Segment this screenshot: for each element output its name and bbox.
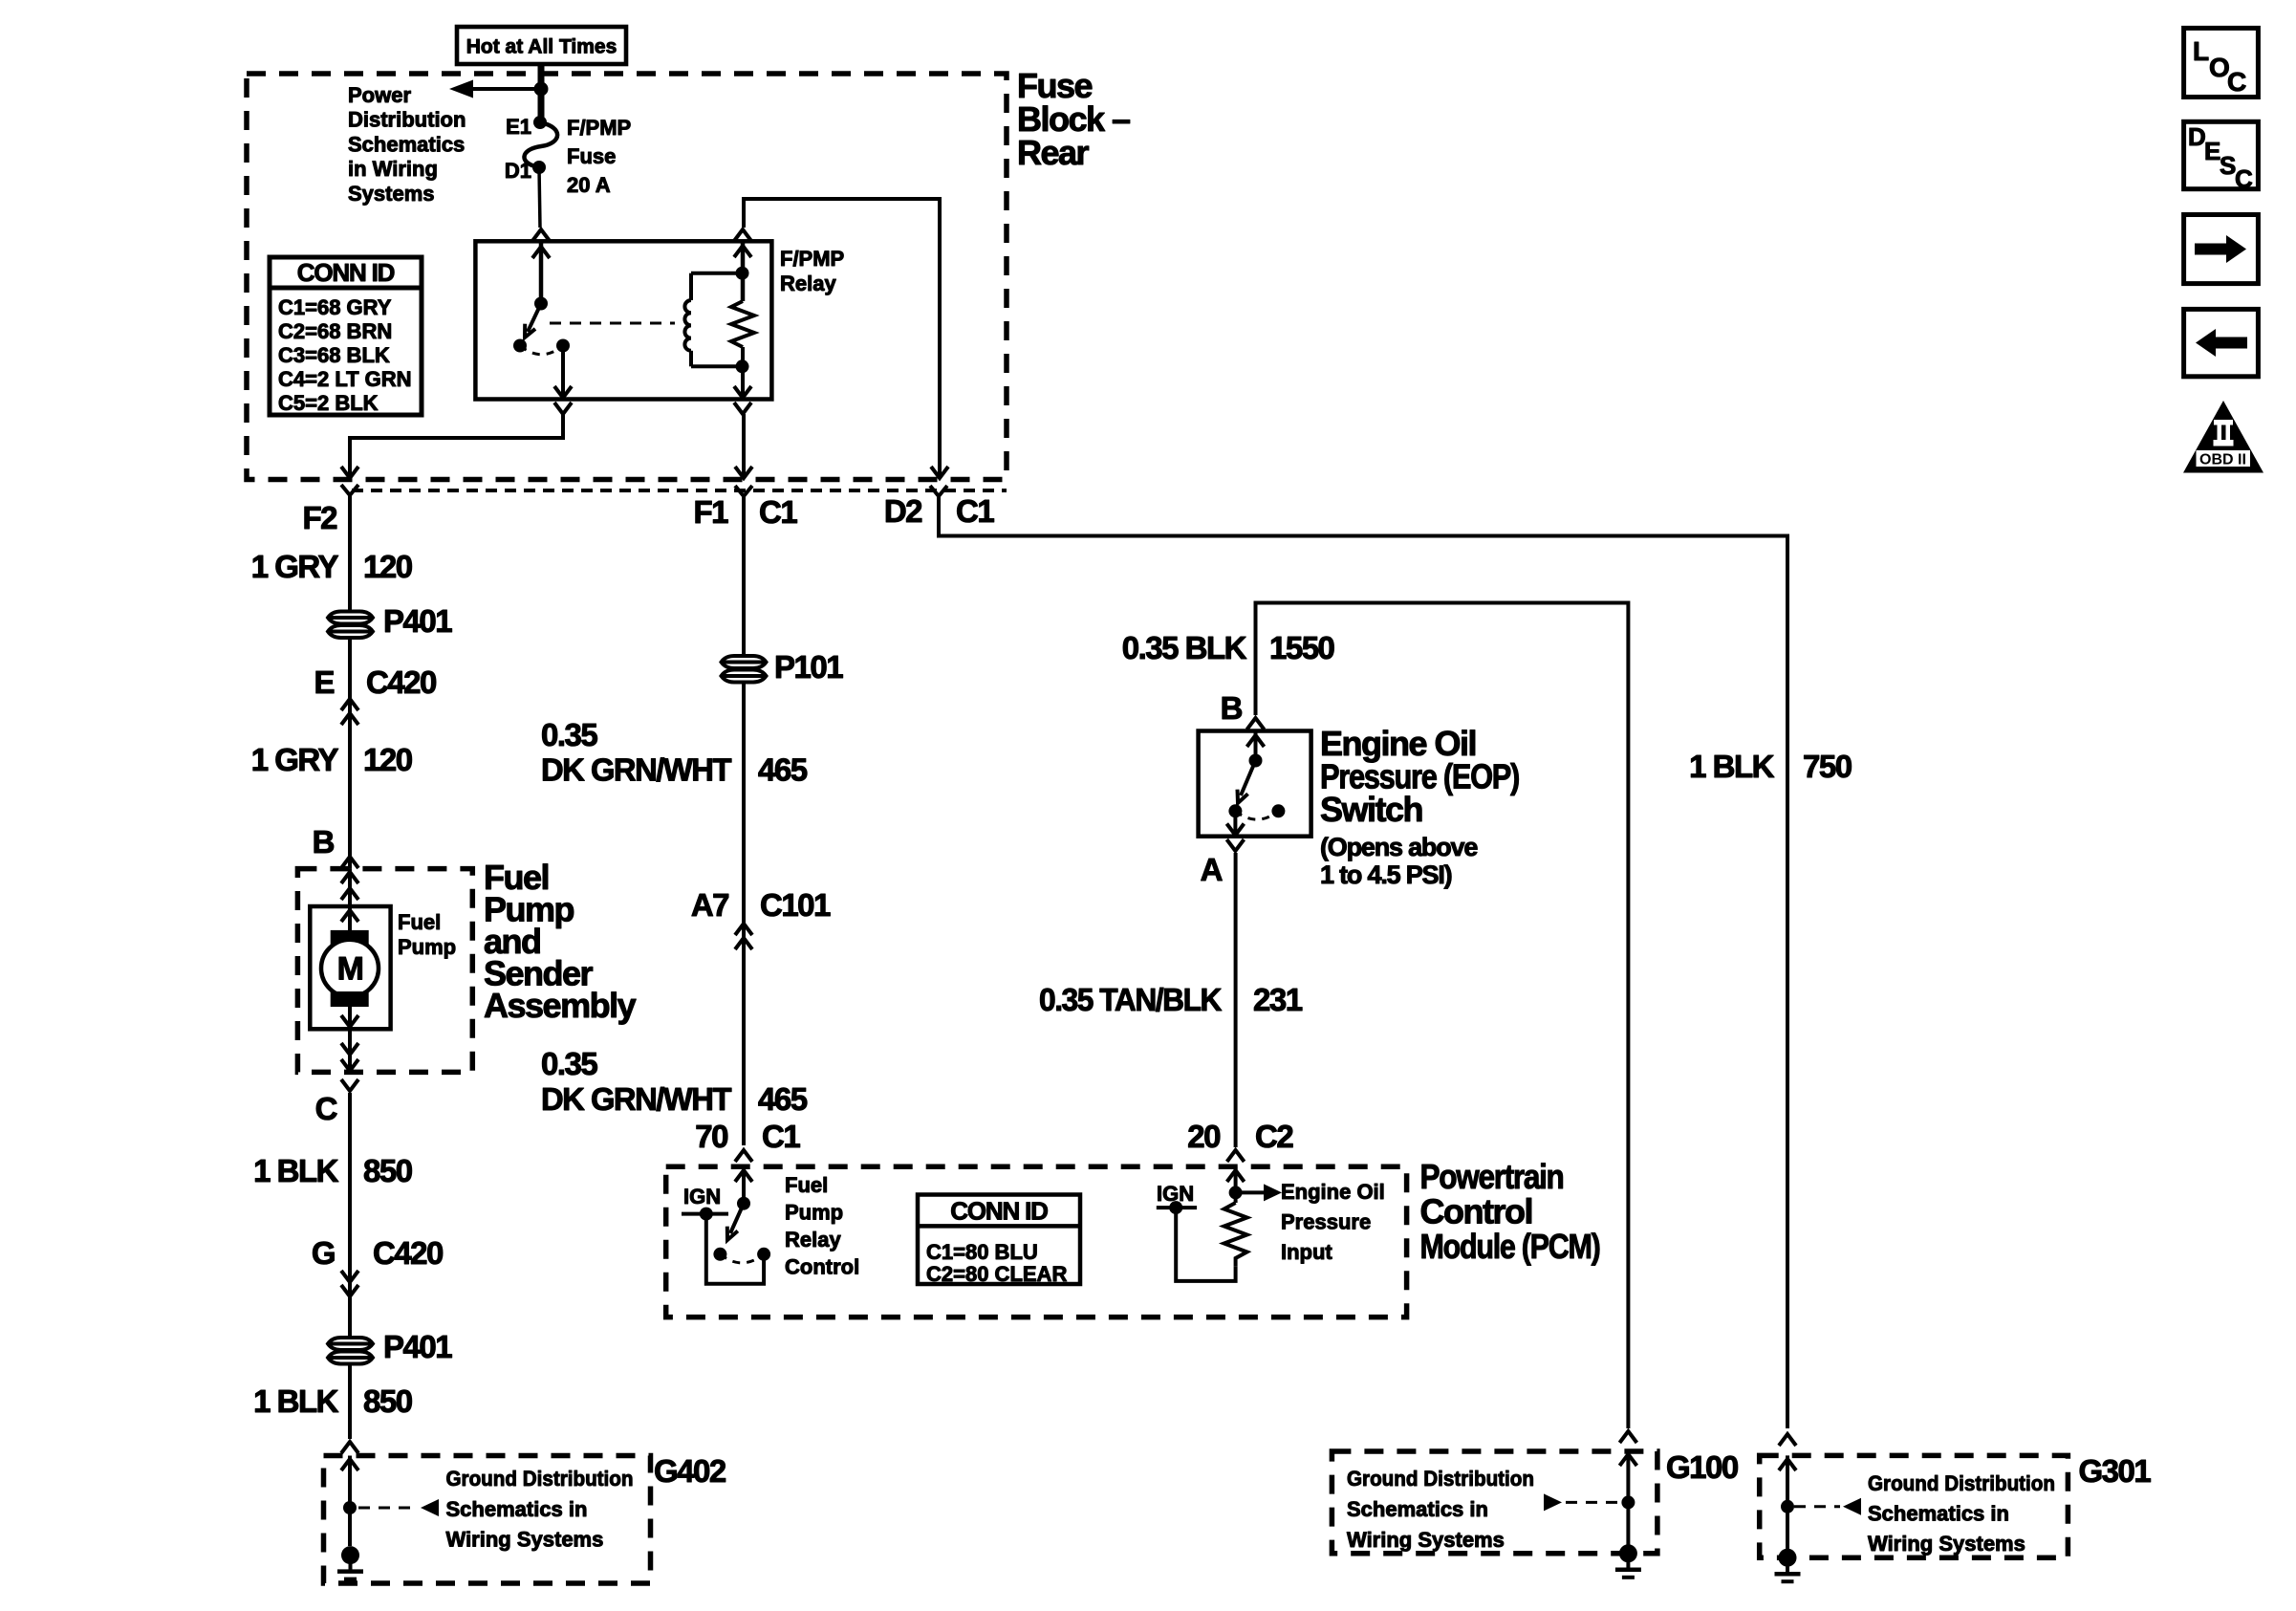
wire: EOP B to G100 (0.35 BLK 1550) bbox=[1256, 603, 1629, 1429]
relay F/PMP box bbox=[475, 241, 771, 399]
svg-text:Pump: Pump bbox=[398, 935, 456, 959]
svg-text:Wiring Systems: Wiring Systems bbox=[1347, 1528, 1505, 1552]
wire: branch to power distribution (left arrow) bbox=[472, 87, 541, 91]
svg-text:B: B bbox=[313, 824, 335, 860]
svg-text:G: G bbox=[312, 1235, 335, 1271]
svg-text:D1: D1 bbox=[505, 159, 531, 183]
svg-text:Hot at All Times: Hot at All Times bbox=[466, 36, 617, 58]
svg-text:C1: C1 bbox=[956, 493, 994, 529]
CONN ID table (PCM) bbox=[918, 1195, 1080, 1285]
svg-text:Fuse: Fuse bbox=[567, 144, 616, 168]
svg-text:F2: F2 bbox=[302, 500, 337, 535]
svg-text:Schematics in: Schematics in bbox=[1868, 1502, 2009, 1526]
relay switch common pin (from fuse) bbox=[539, 241, 544, 303]
svg-text:Rear: Rear bbox=[1017, 133, 1090, 172]
icon: OBD II bbox=[2183, 401, 2264, 473]
wire: 1 BLK 850 to G402 bbox=[348, 1365, 352, 1439]
svg-text:Input: Input bbox=[1281, 1240, 1332, 1264]
arrow: engine oil pressure input signal bbox=[1236, 1190, 1266, 1194]
svg-text:Control: Control bbox=[785, 1255, 859, 1279]
node: G100 junction bbox=[1621, 1495, 1635, 1509]
powertrain control module (dashed box) bbox=[666, 1166, 1407, 1317]
ground distribution box G301 bbox=[1779, 1434, 1796, 1446]
ground G100 bbox=[1619, 1544, 1637, 1562]
fuse F/PMP 20A bbox=[533, 116, 547, 129]
icon: forward arrow bbox=[2184, 215, 2259, 284]
ground G402 bbox=[341, 1546, 359, 1564]
svg-text:Schematics in: Schematics in bbox=[446, 1497, 588, 1521]
wire out of pump bbox=[348, 1029, 352, 1072]
svg-text:G301: G301 bbox=[2079, 1453, 2152, 1489]
svg-text:C: C bbox=[2235, 164, 2253, 193]
wire: to C420 bbox=[348, 640, 352, 869]
svg-text:Ground Distribution: Ground Distribution bbox=[446, 1467, 634, 1491]
svg-text:1 BLK: 1 BLK bbox=[1689, 749, 1775, 784]
svg-text:C420: C420 bbox=[373, 1235, 443, 1271]
svg-text:C1: C1 bbox=[759, 494, 797, 530]
svg-text:Ground Distribution: Ground Distribution bbox=[1347, 1467, 1534, 1491]
icon: DESC bbox=[2184, 121, 2259, 188]
svg-text:0.35: 0.35 bbox=[541, 717, 597, 752]
svg-text:Power: Power bbox=[348, 83, 411, 107]
svg-text:Module (PCM): Module (PCM) bbox=[1420, 1227, 1600, 1266]
svg-text:G402: G402 bbox=[654, 1453, 726, 1489]
svg-text:0.35: 0.35 bbox=[541, 1046, 597, 1081]
svg-text:Schematics: Schematics bbox=[348, 132, 465, 156]
relay switch bbox=[534, 297, 548, 311]
svg-text:Engine Oil: Engine Oil bbox=[1281, 1180, 1385, 1204]
svg-text:DK GRN/WHT: DK GRN/WHT bbox=[541, 1081, 731, 1117]
svg-text:P401: P401 bbox=[383, 1329, 452, 1364]
connector line C1 (thin dashed) bbox=[352, 489, 1007, 492]
svg-text:E: E bbox=[2204, 137, 2220, 165]
wire: relay 87 pin down to F1 bbox=[734, 403, 751, 414]
svg-text:Ground Distribution: Ground Distribution bbox=[1868, 1471, 2055, 1495]
svg-text:B: B bbox=[1221, 690, 1243, 726]
svg-text:0.35 TAN/BLK: 0.35 TAN/BLK bbox=[1039, 982, 1223, 1017]
in-line connector C420 bbox=[341, 699, 358, 710]
svg-text:465: 465 bbox=[758, 1081, 808, 1117]
svg-text:in Wiring: in Wiring bbox=[348, 157, 438, 181]
svg-text:C420: C420 bbox=[366, 664, 436, 700]
icon: LOC bbox=[2184, 28, 2259, 97]
svg-text:IGN: IGN bbox=[683, 1185, 721, 1208]
wire: D2/C1 to G301 (1 BLK 750) bbox=[939, 498, 1787, 1428]
ground distribution box G100 bbox=[1619, 1431, 1636, 1443]
svg-text:OBD II: OBD II bbox=[2199, 452, 2246, 468]
svg-text:Wiring Systems: Wiring Systems bbox=[446, 1528, 604, 1552]
svg-text:L: L bbox=[2193, 36, 2209, 66]
svg-text:750: 750 bbox=[1803, 749, 1852, 784]
svg-text:C5=2 BLK: C5=2 BLK bbox=[278, 391, 379, 415]
svg-text:M: M bbox=[337, 951, 363, 988]
ground G301 bbox=[1779, 1549, 1797, 1567]
svg-text:70: 70 bbox=[695, 1119, 727, 1154]
svg-text:Systems: Systems bbox=[348, 182, 435, 206]
svg-text:120: 120 bbox=[363, 742, 412, 777]
svg-text:C2=68 BRN: C2=68 BRN bbox=[278, 319, 392, 343]
svg-text:Pump: Pump bbox=[785, 1201, 843, 1225]
connector P401 (lower) bbox=[328, 1338, 373, 1350]
svg-text:C3=68 BLK: C3=68 BLK bbox=[278, 343, 390, 367]
svg-text:P401: P401 bbox=[383, 603, 452, 639]
svg-text:Switch: Switch bbox=[1320, 790, 1422, 829]
svg-text:S: S bbox=[2220, 151, 2236, 180]
node: coil bottom bbox=[736, 359, 749, 373]
node: G402 junction bbox=[343, 1501, 357, 1514]
svg-text:Pressure: Pressure bbox=[1281, 1210, 1371, 1234]
svg-text:1 GRY: 1 GRY bbox=[251, 742, 339, 777]
svg-text:1 BLK: 1 BLK bbox=[253, 1153, 339, 1188]
node D2 / C1 bbox=[930, 486, 947, 496]
in-line connector C420 (lower) bbox=[341, 1271, 358, 1282]
svg-text:CONN ID: CONN ID bbox=[297, 258, 395, 287]
relay coil bbox=[691, 272, 742, 275]
node F1 / C1 bbox=[735, 486, 752, 496]
svg-text:850: 850 bbox=[363, 1153, 412, 1188]
svg-text:C: C bbox=[315, 1091, 337, 1126]
svg-text:P101: P101 bbox=[774, 649, 843, 685]
ground distribution box G402 bbox=[324, 1456, 651, 1584]
hot at all times tag bbox=[457, 27, 626, 64]
svg-text:C2=80 CLEAR: C2=80 CLEAR bbox=[926, 1262, 1067, 1286]
engine oil pressure switch box bbox=[1199, 731, 1311, 837]
svg-text:Distribution: Distribution bbox=[348, 108, 466, 132]
svg-text:E: E bbox=[314, 664, 334, 700]
svg-text:20 A: 20 A bbox=[567, 173, 611, 197]
svg-text:Relay: Relay bbox=[780, 272, 836, 295]
wire: 0.35 TAN/BLK 231 bbox=[1234, 853, 1238, 1147]
wire: F1 to P101 bbox=[742, 510, 746, 656]
fuel pump motor box bbox=[310, 906, 390, 1029]
in-line connector C101 bbox=[735, 924, 752, 935]
svg-text:1 GRY: 1 GRY bbox=[251, 549, 339, 584]
svg-text:F/PMP: F/PMP bbox=[567, 116, 631, 140]
svg-text:Fuel: Fuel bbox=[398, 910, 441, 934]
fuse block - rear (dashed enclosure) bbox=[247, 74, 1007, 480]
wire: hot feed into fuse bbox=[538, 64, 545, 122]
svg-text:(Opens above: (Opens above bbox=[1320, 833, 1478, 861]
svg-text:Fuel: Fuel bbox=[785, 1173, 828, 1197]
wire: 0.35 DK GRN/WHT 465 bbox=[742, 684, 746, 1145]
svg-text:C2: C2 bbox=[1255, 1119, 1293, 1154]
svg-text:Relay: Relay bbox=[785, 1228, 841, 1252]
svg-text:1550: 1550 bbox=[1269, 630, 1334, 665]
mech link switch-coil (dashed) bbox=[550, 322, 675, 325]
connector P101 bbox=[722, 656, 767, 668]
svg-text:Wiring Systems: Wiring Systems bbox=[1868, 1532, 2025, 1556]
svg-text:1 to 4.5 PSI): 1 to 4.5 PSI) bbox=[1320, 860, 1452, 889]
svg-text:F1: F1 bbox=[693, 494, 728, 530]
svg-text:850: 850 bbox=[363, 1383, 412, 1419]
svg-text:Control: Control bbox=[1420, 1192, 1532, 1231]
relay internal resistor bbox=[741, 241, 746, 301]
node: G301 junction bbox=[1781, 1500, 1794, 1513]
svg-text:0.35 BLK: 0.35 BLK bbox=[1122, 630, 1247, 665]
svg-text:DK GRN/WHT: DK GRN/WHT bbox=[541, 752, 731, 788]
EOP switch internals bbox=[1254, 731, 1258, 761]
connector P401 bbox=[328, 612, 373, 624]
fuel pump and sender assembly (dashed box) bbox=[297, 869, 472, 1073]
svg-text:465: 465 bbox=[758, 752, 808, 788]
svg-text:A: A bbox=[1201, 852, 1223, 887]
svg-text:C: C bbox=[2227, 67, 2246, 97]
PCM fuel pump relay control driver bbox=[742, 1166, 746, 1204]
svg-text:C1: C1 bbox=[762, 1119, 800, 1154]
svg-text:D2: D2 bbox=[884, 493, 922, 529]
motor M bbox=[348, 906, 352, 930]
svg-text:C101: C101 bbox=[760, 887, 831, 923]
svg-text:C1=68 GRY: C1=68 GRY bbox=[278, 295, 392, 319]
svg-text:D: D bbox=[2188, 122, 2205, 151]
svg-text:Powertrain: Powertrain bbox=[1420, 1157, 1564, 1196]
svg-text:1 BLK: 1 BLK bbox=[253, 1383, 339, 1419]
wire: relay switch output bbox=[561, 346, 565, 398]
node: coil top bbox=[736, 267, 749, 280]
svg-text:Schematics in: Schematics in bbox=[1347, 1497, 1488, 1521]
svg-text:Assembly: Assembly bbox=[484, 986, 637, 1025]
wire: 1 GRY 120 (F2 to P401) bbox=[348, 509, 352, 612]
svg-text:G100: G100 bbox=[1666, 1449, 1738, 1485]
node: hot feed junction bbox=[534, 82, 549, 97]
wire: relay coil ground side to D2 bbox=[931, 467, 948, 478]
icon: back arrow bbox=[2184, 309, 2259, 376]
svg-text:O: O bbox=[2209, 53, 2229, 82]
wire: fuse D1 to relay bbox=[539, 167, 540, 228]
wire: relay 86 pin to top link bbox=[734, 229, 751, 241]
svg-text:231: 231 bbox=[1253, 982, 1303, 1017]
svg-text:F/PMP: F/PMP bbox=[780, 247, 844, 271]
wire: 1 BLK 850 bbox=[348, 1093, 352, 1338]
svg-text:E1: E1 bbox=[506, 115, 531, 139]
CONN ID table (fuse block) bbox=[270, 257, 422, 415]
wire into pump bbox=[348, 869, 352, 906]
svg-text:120: 120 bbox=[363, 549, 412, 584]
svg-text:CONN ID: CONN ID bbox=[950, 1197, 1048, 1226]
svg-text:20: 20 bbox=[1187, 1119, 1220, 1154]
resistor (pull-up) bbox=[1224, 1203, 1247, 1266]
svg-text:C4=2 LT GRN: C4=2 LT GRN bbox=[278, 367, 412, 391]
svg-text:A7: A7 bbox=[691, 887, 728, 923]
node F2 bbox=[341, 485, 358, 495]
svg-text:C1=80 BLU: C1=80 BLU bbox=[926, 1240, 1038, 1264]
